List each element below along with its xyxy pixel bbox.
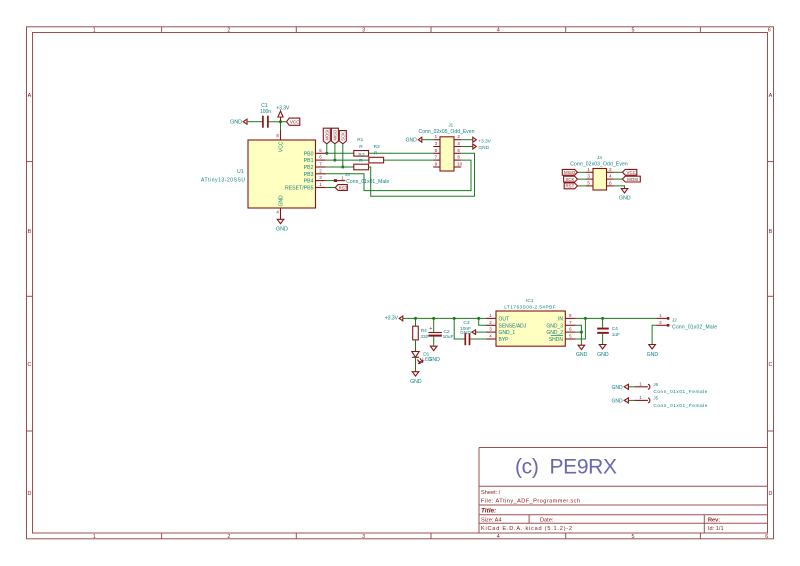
wire J1 pin 2 to +3.3V xyxy=(461,139,473,141)
power symbol +3.3V above U1 xyxy=(276,105,290,121)
U1 pin 7 PB2 xyxy=(304,162,326,172)
svg-text:C: C xyxy=(768,362,772,368)
svg-text:R3: R3 xyxy=(358,152,364,158)
J4 pin 6 xyxy=(607,180,614,186)
IC1 pin 1 OUT xyxy=(486,313,509,323)
svg-text:Conn_02x03_Odd_Even: Conn_02x03_Odd_Even xyxy=(570,162,628,168)
IC1 pin 6 GND_2 xyxy=(546,327,575,337)
global label MISO vertical xyxy=(331,128,338,144)
svg-text:GND: GND xyxy=(647,352,659,358)
ground symbol under C4 xyxy=(597,345,609,359)
frame column labels bottom xyxy=(93,534,769,540)
IC1 pin 3 GND_1 xyxy=(486,327,516,337)
svg-text:IN: IN xyxy=(558,316,563,322)
U1 pin 8 VCC xyxy=(276,130,284,152)
svg-text:C4: C4 xyxy=(612,326,618,332)
wire rail to C3 xyxy=(454,318,464,339)
connector J3 Conn_01x01_Male xyxy=(334,172,390,185)
ground symbol under D1 xyxy=(410,372,422,385)
svg-text:PB0: PB0 xyxy=(304,151,314,157)
J1 pin 10 xyxy=(454,162,463,168)
svg-text:4: 4 xyxy=(497,534,500,540)
wire GND_2 stub xyxy=(576,331,582,333)
svg-text:U1: U1 xyxy=(237,169,244,175)
svg-text:PB4: PB4 xyxy=(304,179,314,185)
U1 pin 3 PB4 xyxy=(304,175,326,185)
J1 pin 6 xyxy=(454,148,461,154)
global label RST at J4 xyxy=(564,183,586,189)
svg-text:GND_3: GND_3 xyxy=(546,323,563,329)
U1 pin 1 RESET/PB5 xyxy=(285,182,326,192)
power symbol GND at J5 xyxy=(611,398,634,405)
frame row labels left xyxy=(27,93,31,497)
svg-text:Size: A4: Size: A4 xyxy=(481,518,502,524)
connector J6 Conn_01x01_Female xyxy=(635,381,708,395)
svg-text:A: A xyxy=(28,93,32,99)
svg-text:D: D xyxy=(27,491,31,497)
svg-text:J3: J3 xyxy=(345,172,350,177)
junction C4 xyxy=(601,317,604,320)
junction at VCC node xyxy=(279,120,282,123)
U1 pin 2 PB3 xyxy=(304,168,326,178)
wire SENSE junction to IC1 pin 2 xyxy=(479,318,486,325)
wire rail to R4 xyxy=(415,318,417,326)
svg-text:Id: 1/1: Id: 1/1 xyxy=(708,526,724,532)
svg-text:GND: GND xyxy=(410,379,422,385)
svg-text:SENSE/ADJ: SENSE/ADJ xyxy=(499,323,527,329)
svg-text:+3.3V: +3.3V xyxy=(385,315,399,321)
svg-text:RESET/PB5: RESET/PB5 xyxy=(285,186,314,192)
wire C4 to GND xyxy=(602,334,604,345)
ground symbol under IC1 xyxy=(576,345,588,358)
svg-text:100n: 100n xyxy=(260,109,271,115)
svg-text:SHDN: SHDN xyxy=(549,337,564,343)
power symbol GND left of J1 pin 1 xyxy=(406,137,434,143)
LED D1 xyxy=(412,352,432,364)
frame column labels top xyxy=(93,28,771,34)
connector J5 Conn_01x01_Female xyxy=(635,395,708,409)
svg-text:Conn_01x02_Male: Conn_01x02_Male xyxy=(672,325,717,331)
IC U1 ATtiny13-20SSU body xyxy=(201,140,316,208)
J1 pin 2 xyxy=(454,134,461,140)
global label VCC at J4 xyxy=(614,169,637,175)
J4 pin 1 xyxy=(586,167,593,173)
power symbol GND right of J1 pin 4 xyxy=(473,144,490,151)
wire SHDN tie xyxy=(576,318,586,339)
svg-text:GND: GND xyxy=(428,357,440,363)
svg-text:1uF: 1uF xyxy=(612,332,620,338)
svg-text:BYP: BYP xyxy=(499,337,510,343)
junction PB1/MISO xyxy=(333,159,336,162)
global label MOSI at J4 xyxy=(614,176,641,182)
svg-text:R4: R4 xyxy=(421,328,427,334)
wire VCC junction to U1 pin 8 xyxy=(280,122,282,130)
global label VCC xyxy=(287,118,301,125)
wire D1 to GND xyxy=(415,357,417,371)
ground symbol under U1 xyxy=(276,215,288,233)
ground symbol under J4 xyxy=(619,189,631,202)
resistor R1 xyxy=(354,137,369,156)
wire GND to C1 xyxy=(247,121,262,123)
svg-text:C2: C2 xyxy=(444,329,450,335)
svg-text:SCK: SCK xyxy=(565,177,574,182)
wire C2 to GND xyxy=(433,337,435,347)
svg-text:R2: R2 xyxy=(374,144,380,150)
svg-text:SCK: SCK xyxy=(340,132,345,141)
svg-text:GND: GND xyxy=(619,195,631,201)
J1 pin 9 xyxy=(433,162,440,168)
wire MOSI stem xyxy=(326,144,328,154)
svg-text:GND: GND xyxy=(278,195,284,207)
svg-text:5: 5 xyxy=(632,534,635,540)
J1 pin 5 xyxy=(433,148,440,154)
svg-text:Sheet: /: Sheet: / xyxy=(481,490,501,496)
connector J2 Conn_01x02_Male xyxy=(656,313,717,331)
J1 pin 4 xyxy=(454,141,461,147)
svg-text:GND: GND xyxy=(597,352,609,358)
svg-text:VCC: VCC xyxy=(627,170,636,175)
svg-text:GND: GND xyxy=(406,138,418,144)
connector J1 Conn_02x05_Odd_Even body xyxy=(419,123,475,171)
wire R4 to D1 xyxy=(415,340,417,352)
capacitor C3 xyxy=(460,320,471,345)
svg-text:4: 4 xyxy=(497,28,500,34)
svg-text:Rev:: Rev: xyxy=(708,518,720,524)
svg-text:PB1: PB1 xyxy=(304,158,314,164)
J1 pin 1 xyxy=(433,134,440,140)
junction C3 xyxy=(453,317,456,320)
wire PB1 to R2 xyxy=(326,159,369,161)
resistor R4 xyxy=(413,326,429,340)
svg-text:GND: GND xyxy=(478,145,489,151)
svg-text:C: C xyxy=(27,362,31,368)
svg-text:R: R xyxy=(374,150,378,156)
svg-text:MISO: MISO xyxy=(564,170,576,175)
svg-text:10uF: 10uF xyxy=(443,334,454,340)
J1 pin 3 xyxy=(433,141,440,147)
svg-text:RST: RST xyxy=(566,184,575,189)
svg-text:3: 3 xyxy=(362,28,365,34)
svg-text:+3.3V: +3.3V xyxy=(276,105,290,111)
global label SCK vertical xyxy=(339,131,346,144)
svg-text:GND_1: GND_1 xyxy=(499,330,516,336)
frame column ticks bottom xyxy=(162,533,701,539)
svg-text:GND: GND xyxy=(611,385,623,391)
svg-text:C3: C3 xyxy=(463,320,469,326)
svg-text:6: 6 xyxy=(768,28,771,34)
connector J4 Conn_02x03_Odd_Even body xyxy=(570,155,628,190)
wire RESET to RST label xyxy=(326,187,336,189)
svg-text:5: 5 xyxy=(632,28,635,34)
svg-text:OUT: OUT xyxy=(499,316,510,322)
resistor R3 xyxy=(354,158,369,170)
power symbol GND left of C1 xyxy=(230,119,247,125)
IC1 pin 8 IN xyxy=(558,313,576,323)
wire +3.3V rail to IC1 OUT xyxy=(403,317,486,319)
svg-text:KiCad E.D.A. kicad (5.1.2)-2: KiCad E.D.A. kicad (5.1.2)-2 xyxy=(481,526,572,532)
wire J1 pin 4 to GND xyxy=(461,146,473,148)
J1 pin 7 xyxy=(433,155,440,161)
wire J4 pin 6 to GND xyxy=(614,186,625,189)
U1 pin 6 PB1 xyxy=(304,155,326,165)
svg-text:2: 2 xyxy=(227,534,230,540)
svg-text:330: 330 xyxy=(420,334,428,340)
svg-text:2: 2 xyxy=(227,28,230,34)
global label MOSI vertical xyxy=(323,128,330,144)
svg-text:J5: J5 xyxy=(653,395,658,400)
J4 pin 5 xyxy=(586,180,593,186)
capacitor C2 polarized xyxy=(428,326,453,340)
resistor R2 xyxy=(369,144,384,163)
svg-text:GND: GND xyxy=(576,352,588,358)
svg-text:Date:: Date: xyxy=(540,518,554,524)
svg-text:RST: RST xyxy=(339,185,348,190)
J4 pin 3 xyxy=(586,174,593,180)
svg-text:1: 1 xyxy=(93,28,96,34)
svg-text:1: 1 xyxy=(93,534,96,540)
svg-text:R: R xyxy=(359,158,363,164)
wire PB2 to R3 xyxy=(326,166,354,168)
svg-text:Conn_01x01_Female: Conn_01x01_Female xyxy=(653,389,707,395)
svg-text:IC1: IC1 xyxy=(526,298,534,304)
svg-text:J6: J6 xyxy=(653,382,658,387)
U1 pin 4 GND xyxy=(276,195,284,215)
wire PB3 loop to J1 pin 8 xyxy=(326,160,471,191)
J1 pin 8 xyxy=(454,155,461,161)
global label MISO at J4 xyxy=(562,169,586,175)
IC1 pin 2 SENSE/ADJ xyxy=(486,320,527,330)
capacitor C1 xyxy=(260,103,271,128)
wire SCK stem xyxy=(342,144,344,167)
global label RST xyxy=(335,185,347,191)
capacitor C4 xyxy=(597,326,620,338)
U1 pin 5 PB0 xyxy=(304,148,326,158)
junction R4 xyxy=(414,317,417,320)
J4 pin 4 xyxy=(607,174,614,180)
wire PB4 to J3 xyxy=(326,180,334,182)
power symbol +3.3V right of J1 pin 2 xyxy=(473,137,492,144)
frame row ticks right xyxy=(768,162,774,431)
svg-text:10: 10 xyxy=(457,162,462,167)
J4 pin 2 xyxy=(607,167,614,173)
IC1 pin 4 BYP xyxy=(486,334,509,344)
wire PB0 to R1 xyxy=(326,152,354,154)
svg-text:D: D xyxy=(768,491,772,497)
svg-text:File: ATtiny_ADF_Programmer.sc: File: ATtiny_ADF_Programmer.sch xyxy=(481,498,580,504)
svg-text:GND: GND xyxy=(276,226,288,232)
svg-text:B: B xyxy=(28,229,32,235)
svg-text:R: R xyxy=(359,144,363,150)
svg-text:Title:: Title: xyxy=(481,507,496,514)
global label SCK at J4 xyxy=(564,176,586,182)
svg-text:LT1763S08-2.5#PBF: LT1763S08-2.5#PBF xyxy=(504,305,556,311)
svg-text:6: 6 xyxy=(765,534,768,540)
junction PB0/MOSI xyxy=(325,152,328,155)
svg-text:MOSI: MOSI xyxy=(324,130,329,141)
svg-text:MISO: MISO xyxy=(332,129,337,140)
svg-text:GND: GND xyxy=(611,398,623,404)
svg-text:PB2: PB2 xyxy=(304,165,314,171)
svg-text:Conn_01x01_Female: Conn_01x01_Female xyxy=(653,403,707,409)
IC1 pin 5 SHDN xyxy=(549,334,576,344)
svg-text:J4: J4 xyxy=(597,155,602,160)
wire MISO stem xyxy=(334,144,336,160)
svg-text:ATtiny13-20SSU: ATtiny13-20SSU xyxy=(201,177,245,183)
title block frame xyxy=(479,448,768,534)
frame row ticks left xyxy=(27,162,33,431)
wire R1 to J1 pin 5 xyxy=(369,152,434,154)
IC1 pin 7 GND_3 xyxy=(546,320,575,330)
svg-text:R1: R1 xyxy=(357,137,363,143)
wire C3 to IC1 BYP xyxy=(470,338,486,340)
junction SHDN tie xyxy=(584,317,587,320)
wire R2 to J1 pin 7 xyxy=(384,159,434,161)
junction PB2/SCK xyxy=(341,166,344,169)
svg-text:PB3: PB3 xyxy=(304,172,314,178)
svg-text:VCC: VCC xyxy=(278,141,284,152)
svg-text:B: B xyxy=(769,229,773,235)
svg-text:Conn_01x01_Male: Conn_01x01_Male xyxy=(346,179,389,185)
ground symbol under J2 xyxy=(647,345,659,359)
power symbol +3.3V at regulator rail xyxy=(385,315,403,321)
wire rail to C2 xyxy=(433,318,435,332)
svg-text:J2: J2 xyxy=(672,318,677,323)
wire rail to C4 xyxy=(602,318,604,327)
frame column ticks top xyxy=(162,27,701,33)
svg-text:(c) PE9RX: (c) PE9RX xyxy=(515,456,617,479)
frame row labels right xyxy=(768,93,772,497)
svg-text:Conn_02x05_Odd_Even: Conn_02x05_Odd_Even xyxy=(419,129,475,135)
power symbol GND at J6 xyxy=(611,384,634,391)
wire J2 pin 2 to GND xyxy=(652,325,656,344)
IC1 LT1763 body xyxy=(496,298,565,346)
junction SENSE xyxy=(477,317,480,320)
wire C1 to junction xyxy=(269,121,287,123)
svg-text:3: 3 xyxy=(362,534,365,540)
power symbol GND at IC1 pin 3 xyxy=(460,330,486,336)
svg-text:A: A xyxy=(769,93,773,99)
ground symbol under C2 xyxy=(428,346,440,363)
junction C2 xyxy=(432,317,435,320)
svg-text:MOSI: MOSI xyxy=(627,177,638,182)
wire R3 right to loop corner xyxy=(369,153,475,196)
svg-text:VCC: VCC xyxy=(290,120,300,125)
svg-text:J1: J1 xyxy=(448,123,453,128)
svg-text:GND: GND xyxy=(460,330,471,336)
wire GND_3/GND_2 to ground xyxy=(576,325,582,345)
svg-text:GND: GND xyxy=(230,120,242,126)
junction GND_2 xyxy=(580,331,583,334)
svg-text:+: + xyxy=(429,326,432,332)
svg-text:+3.3V: +3.3V xyxy=(478,139,491,145)
wire IN rail to J2 pin 1 xyxy=(576,317,657,319)
